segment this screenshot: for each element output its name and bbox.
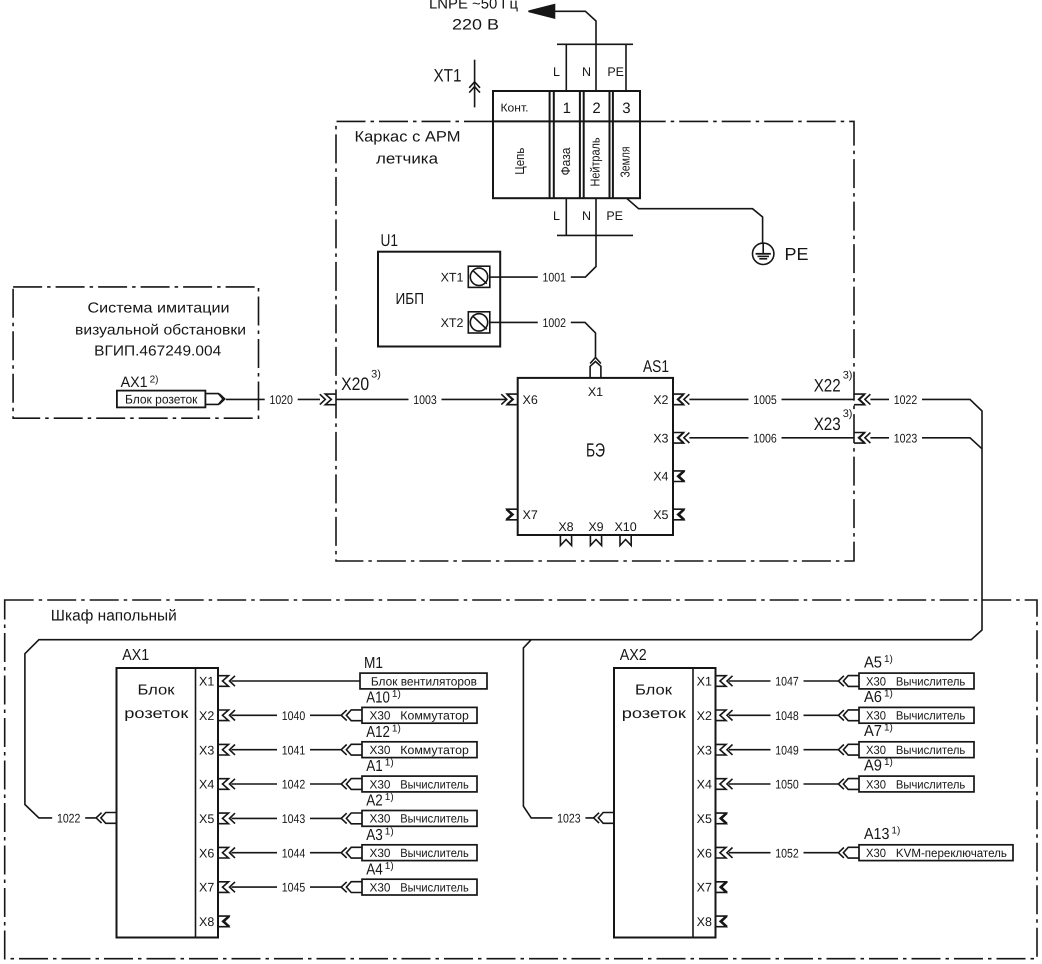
svg-text:X6: X6 [523, 393, 538, 407]
svg-text:KVM-переключатель: KVM-переключатель [896, 846, 1007, 860]
svg-text:X30: X30 [866, 743, 886, 757]
svg-text:X1: X1 [199, 675, 214, 689]
svg-text:летчика: летчика [376, 151, 439, 168]
wire 1042 [232, 783, 342, 785]
svg-text:X1: X1 [697, 675, 712, 689]
svg-text:1023: 1023 [557, 812, 581, 826]
svg-text:1): 1) [385, 758, 394, 769]
svg-text:Вычислитель: Вычислитель [400, 812, 469, 826]
svg-text:X30: X30 [866, 846, 886, 860]
svg-text:X2: X2 [697, 709, 712, 723]
svg-text:1): 1) [385, 861, 394, 872]
svg-text:X6: X6 [199, 846, 214, 860]
svg-text:X2: X2 [653, 393, 668, 407]
svg-text:N: N [582, 65, 591, 79]
svg-text:X30: X30 [866, 777, 886, 791]
svg-text:Каркас с АРМ: Каркас с АРМ [355, 129, 461, 146]
svg-text:X30: X30 [370, 880, 391, 894]
svg-text:1): 1) [392, 689, 401, 700]
svg-text:1005: 1005 [753, 393, 777, 407]
terminal block XT1 table [493, 91, 640, 198]
svg-text:X6: X6 [697, 846, 712, 860]
svg-text:A4: A4 [366, 861, 383, 878]
svg-text:PE: PE [607, 65, 624, 79]
svg-text:PE: PE [606, 209, 623, 223]
wire AX1 X1 to M1 [232, 680, 361, 682]
svg-text:X23: X23 [814, 414, 841, 434]
svg-text:X8: X8 [558, 520, 573, 534]
svg-text:X3: X3 [697, 743, 712, 757]
svg-text:X30: X30 [866, 709, 886, 723]
svg-text:розеток: розеток [622, 706, 687, 722]
pin X4 (right) [673, 471, 684, 482]
svg-text:2: 2 [592, 100, 600, 117]
wire 1045 [232, 886, 342, 888]
svg-text:PE: PE [785, 244, 809, 264]
wire 1023 label near AX2 [552, 812, 585, 824]
svg-text:Конт.: Конт. [501, 103, 529, 115]
svg-text:M1: M1 [364, 655, 383, 672]
svg-text:Вычислитель: Вычислитель [896, 777, 965, 791]
svg-text:A6: A6 [864, 689, 882, 706]
svg-text:A13: A13 [864, 826, 889, 843]
svg-text:1003: 1003 [413, 393, 437, 407]
svg-text:1): 1) [884, 757, 893, 768]
wire 1043 [232, 817, 342, 819]
svg-text:Коммутатор: Коммутатор [400, 709, 469, 723]
power input arrow [529, 5, 555, 18]
svg-text:N: N [582, 209, 591, 223]
svg-text:XT1: XT1 [434, 66, 462, 86]
plug into AX1 (wire 1022) [101, 813, 117, 824]
svg-text:X3: X3 [199, 743, 214, 757]
svg-text:A3: A3 [366, 827, 383, 844]
svg-text:1): 1) [385, 826, 394, 837]
wire PE to ground symbol [627, 198, 763, 243]
svg-text:X22: X22 [814, 376, 841, 396]
svg-text:ИБП: ИБП [396, 291, 425, 308]
wire 1022 (to cabinet group line) [25, 399, 982, 818]
svg-text:1048: 1048 [775, 709, 799, 723]
pin X2 (right, wired) [673, 394, 684, 405]
cabinet box Шкаф напольный (dash-dot) [5, 600, 1037, 959]
wire 1050 [729, 783, 838, 785]
svg-text:X30: X30 [370, 743, 391, 757]
svg-text:X8: X8 [697, 915, 712, 929]
svg-text:3: 3 [622, 100, 630, 117]
top bus bar over terminal block [557, 43, 633, 45]
pin X10 (bottom) [620, 535, 631, 546]
svg-text:X5: X5 [697, 812, 712, 826]
pin X9 (bottom) [590, 535, 601, 546]
pin X7 (left) [507, 509, 518, 520]
svg-text:1020: 1020 [269, 393, 293, 407]
svg-text:X5: X5 [653, 508, 668, 522]
svg-text:AX1: AX1 [121, 374, 148, 391]
bottom bus bar under terminal block [557, 234, 633, 236]
pin X6 (left, wired) [507, 394, 518, 405]
svg-text:Система имитации: Система имитации [88, 301, 230, 317]
wire 1005 [689, 398, 854, 400]
svg-text:1001: 1001 [543, 271, 567, 285]
svg-text:220 В: 220 В [452, 17, 499, 34]
svg-text:L: L [553, 65, 560, 79]
svg-text:X7: X7 [523, 508, 538, 522]
wire 1001 [500, 198, 596, 277]
svg-text:розеток: розеток [124, 706, 189, 722]
svg-text:A10: A10 [366, 690, 390, 707]
svg-text:Блок вентиляторов: Блок вентиляторов [371, 674, 477, 688]
svg-text:1050: 1050 [775, 778, 799, 792]
svg-text:Вычислитель: Вычислитель [896, 743, 965, 757]
svg-text:Коммутатор: Коммутатор [400, 743, 469, 757]
svg-text:1006: 1006 [753, 431, 777, 445]
svg-text:1): 1) [392, 723, 401, 734]
svg-text:БЭ: БЭ [586, 441, 605, 462]
svg-text:Вычислитель: Вычислитель [896, 709, 965, 723]
svg-text:Вычислитель: Вычислитель [896, 674, 965, 688]
wire 1049 [729, 749, 838, 751]
svg-text:1022: 1022 [894, 393, 918, 407]
svg-text:Блок: Блок [635, 682, 673, 698]
svg-text:ВГИП.467249.004: ВГИП.467249.004 [94, 343, 221, 359]
wire 1002 [500, 322, 595, 357]
wire 1023 (to cabinet group line) [870, 438, 982, 449]
svg-text:1042: 1042 [282, 778, 306, 792]
svg-text:визуальной обстановки: визуальной обстановки [75, 323, 246, 339]
svg-text:Шкаф напольный: Шкаф напольный [51, 608, 177, 625]
plug into AX2 (wire 1023) [598, 813, 614, 824]
svg-text:Блок: Блок [138, 682, 176, 698]
wire 1003 [336, 398, 506, 400]
svg-text:X7: X7 [697, 881, 712, 895]
wire 1048 [729, 714, 838, 716]
svg-text:1: 1 [563, 100, 571, 117]
svg-text:Земля: Земля [617, 147, 632, 178]
svg-text:1): 1) [884, 654, 893, 665]
svg-text:AX1: AX1 [122, 647, 149, 664]
pin X3 (right, wired) [673, 433, 684, 444]
svg-text:Вычислитель: Вычислитель [400, 846, 469, 860]
svg-text:Фаза: Фаза [558, 147, 573, 176]
svg-text:1044: 1044 [282, 846, 306, 860]
group line branch to AX2 [523, 640, 594, 818]
svg-text:L: L [553, 209, 560, 223]
wire 1040 [232, 714, 342, 716]
connector X20 on frame boundary [325, 394, 336, 405]
wire L bottom [565, 198, 567, 235]
ground PE symbol [753, 243, 774, 264]
svg-text:Блок розеток: Блок розеток [125, 393, 198, 407]
wire 1047 [729, 680, 838, 682]
svg-text:X10: X10 [614, 520, 636, 534]
pin X8 (bottom) [560, 535, 571, 546]
svg-text:U1: U1 [381, 231, 399, 250]
svg-text:1045: 1045 [282, 881, 306, 895]
connector X23 on frame boundary [854, 433, 865, 444]
svg-text:X30: X30 [866, 674, 886, 688]
svg-text:X30: X30 [370, 709, 391, 723]
svg-text:1040: 1040 [282, 709, 306, 723]
svg-text:LNPE ~50 Гц: LNPE ~50 Гц [429, 0, 518, 13]
wire 1006 [689, 437, 854, 439]
wire L top [565, 44, 567, 91]
svg-text:AS1: AS1 [643, 357, 669, 376]
svg-text:XT2: XT2 [441, 316, 464, 330]
svg-text:X20: X20 [341, 374, 369, 394]
svg-text:A5: A5 [864, 655, 882, 672]
svg-text:1022: 1022 [57, 812, 81, 826]
wire 1041 [232, 749, 342, 751]
svg-text:Вычислитель: Вычислитель [400, 777, 469, 791]
svg-text:A7: A7 [864, 723, 882, 740]
svg-text:1047: 1047 [775, 675, 799, 689]
svg-text:1): 1) [884, 688, 893, 699]
svg-text:X5: X5 [199, 812, 214, 826]
svg-text:X30: X30 [370, 777, 391, 791]
frame box Каркас с АРМ летчика (dash-dot) [336, 121, 854, 561]
svg-text:3): 3) [843, 370, 853, 382]
svg-text:1023: 1023 [894, 431, 918, 445]
svg-text:X7: X7 [199, 881, 214, 895]
svg-text:1): 1) [884, 723, 893, 734]
svg-text:X9: X9 [588, 520, 603, 534]
wire 1020 [226, 398, 320, 400]
svg-text:A2: A2 [366, 793, 383, 810]
wire 1052 [729, 852, 838, 854]
svg-text:2): 2) [150, 374, 159, 385]
connector X22 on frame boundary [854, 394, 865, 405]
wire 1044 [232, 852, 342, 854]
unit AS1 БЭ box [518, 378, 673, 535]
svg-text:A12: A12 [366, 724, 390, 741]
svg-text:1052: 1052 [775, 846, 799, 860]
svg-text:Вычислитель: Вычислитель [400, 880, 469, 894]
svg-text:1002: 1002 [543, 316, 567, 330]
svg-text:1043: 1043 [282, 812, 306, 826]
svg-text:3): 3) [843, 408, 853, 420]
plug symbol at visual system output [205, 394, 223, 405]
svg-text:Нейтраль: Нейтраль [588, 137, 603, 186]
svg-text:A9: A9 [864, 758, 882, 775]
wire from power arrow to terminal N [554, 11, 596, 91]
svg-text:X30: X30 [370, 846, 391, 860]
svg-text:X8: X8 [199, 915, 214, 929]
svg-text:A1: A1 [366, 758, 383, 775]
svg-text:1): 1) [385, 792, 394, 803]
wire PE top [625, 44, 627, 91]
svg-text:X4: X4 [653, 470, 668, 484]
svg-text:1): 1) [891, 826, 900, 837]
pin X5 (right) [673, 509, 684, 520]
box Система имитации визуальной обстановки (dash-dot) [13, 287, 258, 418]
svg-text:X30: X30 [370, 812, 391, 826]
svg-text:1049: 1049 [775, 743, 799, 757]
svg-text:XT1: XT1 [441, 271, 464, 285]
svg-text:1041: 1041 [282, 743, 306, 757]
svg-text:3): 3) [371, 369, 381, 381]
svg-text:X2: X2 [199, 709, 214, 723]
wire 1022 label near AX1 [52, 812, 85, 824]
svg-text:X1: X1 [588, 385, 603, 399]
svg-text:Цепь: Цепь [512, 148, 527, 175]
svg-text:AX2: AX2 [620, 647, 647, 664]
pin X1 (top) [590, 362, 601, 378]
svg-text:X3: X3 [653, 431, 668, 445]
svg-text:X4: X4 [697, 778, 712, 792]
svg-text:X4: X4 [199, 778, 214, 792]
